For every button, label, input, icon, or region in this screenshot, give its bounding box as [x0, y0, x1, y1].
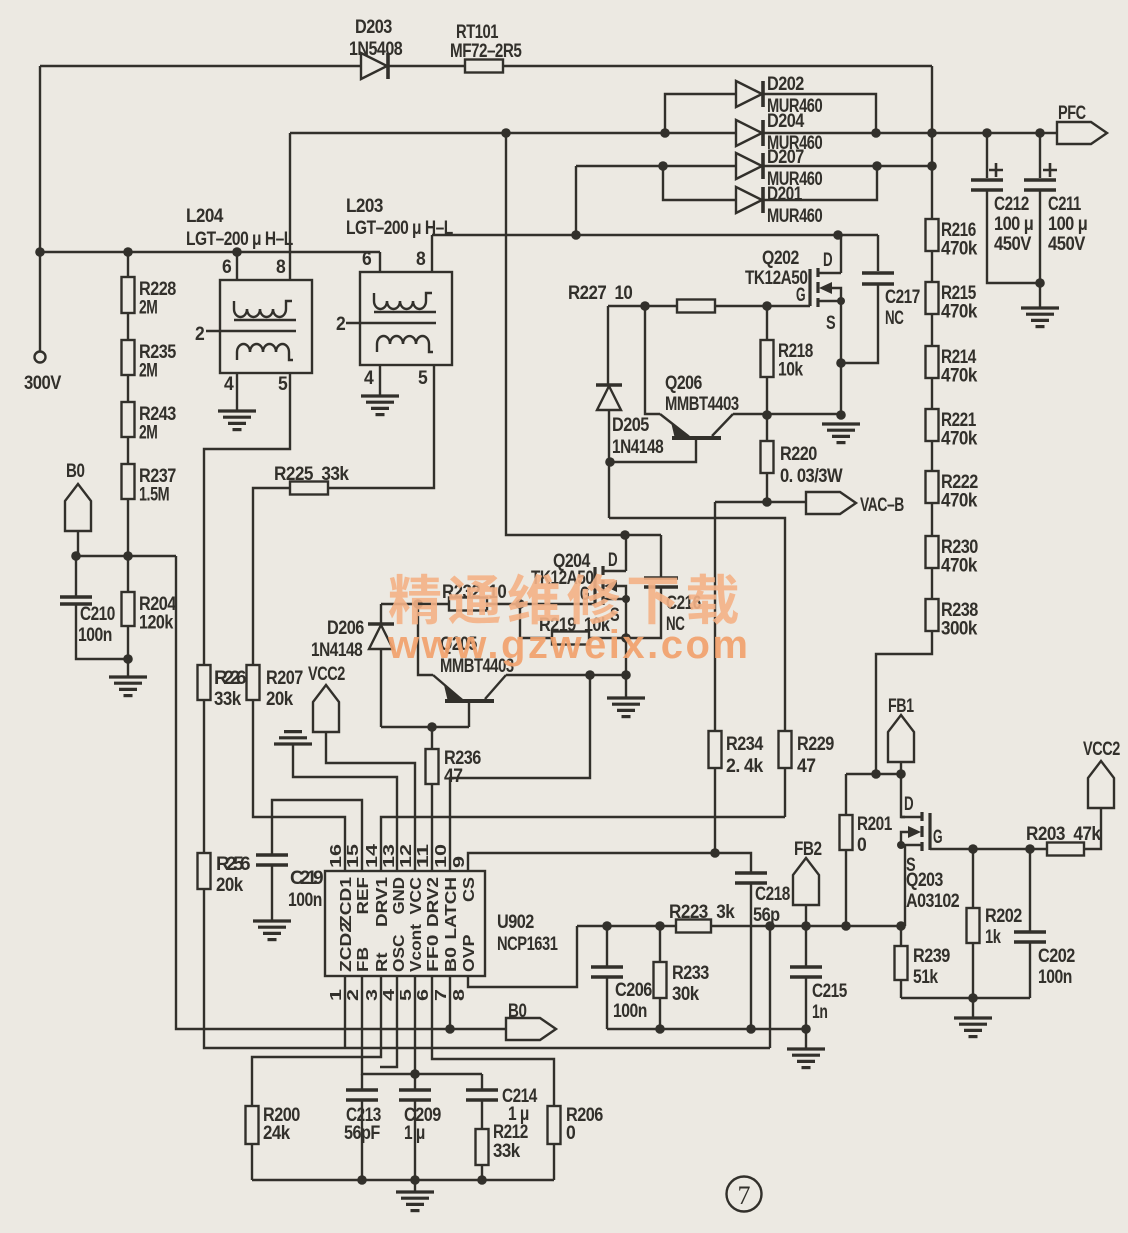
R239 value label [913, 946, 950, 988]
svg-text:300k: 300k [941, 619, 978, 640]
ground under Q202 source [822, 424, 860, 443]
svg-text:Q206: Q206 [665, 373, 702, 394]
wire FB1 stem [900, 762, 902, 774]
net label VCC2 [313, 685, 339, 732]
svg-text:10: 10 [433, 844, 450, 868]
svg-text:0: 0 [566, 1123, 575, 1144]
thermistor RT101 labels [450, 22, 522, 62]
wire Q203 gate line [930, 848, 1047, 850]
net label B0 [65, 484, 91, 531]
svg-text:12: 12 [398, 844, 415, 868]
wire C210 bottom lead [76, 605, 128, 659]
junction R236 bottom rail tap [585, 670, 595, 680]
thermistor RT101 [465, 60, 503, 73]
junction ground riser node [765, 921, 775, 931]
svg-text:R234: R234 [726, 734, 764, 755]
svg-text:14: 14 [364, 844, 381, 868]
C217 value label [885, 287, 920, 329]
diode D204 labels [767, 111, 822, 154]
Q203 name label [906, 870, 959, 912]
resistor R201 [840, 815, 853, 850]
svg-text:www.gzweix.com: www.gzweix.com [387, 623, 750, 667]
svg-text:1: 1 [328, 989, 345, 1001]
junction C209 ground [410, 1175, 420, 1185]
wire Q205 base line [381, 726, 469, 728]
junction R204 C210 ground node [123, 654, 133, 664]
R233 value label [672, 963, 709, 1005]
wire Q202 source lead down [840, 301, 842, 415]
net label FB2 [793, 858, 819, 905]
R220 value label [780, 444, 843, 487]
resistor R238 [926, 599, 939, 631]
wire R226 to R256 [203, 700, 205, 853]
wire mid ground stem [805, 1029, 807, 1048]
wire bottom ground stem [414, 1180, 416, 1192]
wire PFC bus [290, 132, 1057, 134]
wire Q205 emitter line [418, 604, 433, 675]
transistor Q206 [660, 414, 733, 439]
wire C202 top lead [1029, 849, 1031, 931]
svg-text:D204: D204 [767, 111, 805, 132]
wire L204 pin5 to R226 column [204, 373, 290, 665]
svg-text:Vcont: Vcont [408, 923, 425, 972]
junction R212 ground [477, 1175, 487, 1185]
svg-text:11: 11 [415, 844, 432, 868]
resistor R243 [122, 402, 135, 437]
wire Q205 collector ground stem [625, 675, 627, 697]
R201 value label [857, 814, 893, 856]
wire FB1 node line [846, 773, 901, 775]
resistor R230 [926, 536, 939, 568]
resistor R219 [552, 632, 589, 645]
wire D207 cathode line [764, 165, 932, 167]
C210 value label [78, 604, 115, 646]
wire Q204 drain riser [625, 535, 627, 571]
resistor R223 [676, 920, 711, 933]
resistor R232 [449, 598, 487, 611]
diode D202 [736, 81, 763, 107]
C212 plus sign [989, 163, 1003, 177]
wire R203 to VCC2 [1084, 808, 1101, 849]
junction C202 gate [1025, 844, 1035, 854]
svg-text:16: 16 [328, 844, 345, 868]
junction C213 ground [357, 1175, 367, 1185]
svg-text:13: 13 [381, 844, 398, 868]
wire C211 top lead [1039, 133, 1041, 178]
svg-text:15: 15 [345, 844, 362, 868]
diode D207 labels [767, 147, 822, 190]
svg-text:470k: 470k [941, 239, 978, 260]
junction R218 bottom [762, 410, 772, 420]
wire B0 node horizontal [76, 555, 176, 557]
svg-text:R202: R202 [985, 906, 1022, 927]
svg-text:R256: R256 [216, 854, 250, 875]
svg-text:VAC–B: VAC–B [860, 495, 904, 516]
svg-text:4: 4 [381, 989, 398, 1001]
diode D202 labels [767, 74, 822, 117]
resistor R204 [122, 592, 135, 626]
ground under C219 [253, 921, 291, 940]
wire Q206 emitter line [645, 306, 660, 414]
svg-text:U902: U902 [497, 912, 534, 933]
net label PFC [1057, 122, 1107, 144]
op-amp U902 body [325, 871, 485, 976]
resistor R216 [926, 219, 939, 251]
D206 labels [311, 618, 364, 661]
resistor R227 [677, 300, 715, 313]
wire D205 to R229 route [609, 518, 785, 731]
resistor R236 [426, 749, 439, 784]
R204 value label [139, 594, 177, 634]
wire C213 top lead [361, 1074, 363, 1089]
resistor R228 [122, 277, 135, 313]
diode D203 labels [349, 17, 402, 60]
resistor R200 [246, 1106, 259, 1144]
wire R218 leads [766, 306, 768, 415]
wire IC pin 9 CS line [468, 853, 751, 872]
wire C214 top lead [481, 1074, 483, 1089]
wire L204 pin6 stub [236, 252, 238, 280]
diode D205 [596, 385, 622, 410]
svg-text:30k: 30k [672, 984, 700, 1005]
svg-text:6: 6 [222, 257, 231, 278]
R235 value label [139, 342, 177, 382]
svg-text:47: 47 [444, 766, 462, 787]
svg-text:NC: NC [885, 308, 904, 329]
ground at IC pin 13 line [274, 732, 312, 744]
ground under C211 [1021, 308, 1059, 327]
svg-text:FB: FB [355, 947, 372, 972]
capacitor C216 [644, 578, 678, 587]
svg-text:VCC2: VCC2 [308, 664, 345, 685]
wire C213 bottom lead [361, 1101, 363, 1180]
C211 value label [1048, 194, 1087, 255]
svg-text:47: 47 [797, 756, 815, 777]
svg-text:C210: C210 [80, 604, 115, 625]
svg-text:20k: 20k [216, 875, 244, 896]
R207 value label [266, 668, 303, 710]
wire R220 leads [766, 415, 768, 502]
wire C202 bottom lead [1029, 943, 1031, 998]
R226 value label [214, 668, 246, 710]
junction C215 mid rail [801, 1024, 811, 1034]
junction R201 node [841, 921, 851, 931]
wire R201 top lead [845, 774, 847, 815]
resistor R218 [761, 340, 774, 377]
svg-text:470k: 470k [941, 302, 978, 323]
wire IC pin 7 to B0 line [449, 976, 451, 1029]
svg-text:LGT–200 μ H–L: LGT–200 μ H–L [186, 229, 294, 250]
capacitor C212 [971, 180, 1003, 190]
wire C209 bottom lead [414, 1101, 416, 1180]
wire Q205 collector line [506, 674, 626, 676]
resistor R220 [761, 441, 774, 473]
svg-text:C219: C219 [290, 868, 323, 889]
wire IC pin 8 OVP line [468, 926, 577, 987]
svg-text:470k: 470k [941, 556, 978, 577]
svg-text:D202: D202 [767, 74, 804, 95]
svg-text:DRV1: DRV1 [374, 877, 391, 927]
wire top-right drop to PFC bus [931, 66, 933, 133]
wire R212 bottom [481, 1165, 483, 1180]
wire FB2 stem [805, 905, 807, 926]
svg-text:R229: R229 [797, 734, 834, 755]
svg-text:470k: 470k [941, 491, 978, 512]
inductor L204 [206, 280, 312, 373]
svg-text:R212: R212 [493, 1122, 528, 1143]
R206 value label [566, 1105, 603, 1144]
wire R229 bottom to DRV1 line [784, 768, 786, 817]
resistor R233 [654, 962, 667, 998]
wire R204 leads [127, 556, 129, 676]
svg-text:FB2: FB2 [794, 839, 822, 860]
resistor R222 [926, 471, 939, 503]
junction C212 C211 bottom [1035, 278, 1045, 288]
svg-text:1N4148: 1N4148 [612, 437, 663, 458]
wire bottom ground rail [252, 1179, 554, 1181]
resistor R234 [709, 731, 722, 768]
wire L203 pin8 riser [431, 235, 433, 272]
wire Q204 source lead down [625, 599, 627, 638]
junction R237 bottom B0 node [123, 551, 133, 561]
wire B0 node down-right route [176, 556, 506, 1029]
junction PFC bus C211 [1035, 128, 1045, 138]
capacitor C206 [591, 967, 623, 977]
C209 value label [404, 1105, 441, 1144]
svg-text:D206: D206 [327, 618, 364, 639]
wire R225 left to R207 column [253, 488, 290, 665]
svg-text:1k: 1k [985, 927, 1001, 948]
svg-text:REF: REF [355, 877, 372, 915]
svg-text:2: 2 [345, 989, 362, 1001]
junction L204 pin6 node [232, 247, 242, 257]
wire ground to IC pin 13 [293, 745, 397, 871]
C214 value label [502, 1086, 538, 1125]
svg-text:100n: 100n [1038, 967, 1072, 988]
resistor R235 [122, 340, 135, 375]
resistor R225 [290, 482, 328, 495]
wire R201 bottom lead [845, 850, 847, 926]
inductor L203 [346, 272, 452, 365]
svg-text:B0: B0 [66, 461, 84, 482]
wire IC pin 6 to R206 [432, 976, 554, 1106]
capacitor C202 [1014, 932, 1046, 942]
svg-text:120k: 120k [139, 613, 174, 634]
R230 value label [941, 537, 978, 577]
wire Q204 drain line from PFC tap [506, 133, 661, 535]
junction pin5 C209 [410, 1069, 420, 1079]
transistor Q204 [595, 566, 630, 605]
transistor Q205 [433, 675, 506, 702]
ground under L203 pin4 [361, 396, 399, 415]
junction PFC bus C212 [982, 128, 992, 138]
svg-text:L204: L204 [186, 206, 224, 227]
junction R202 gate [968, 844, 978, 854]
junction D201 anode riser [658, 161, 668, 171]
svg-text:CS: CS [461, 877, 478, 902]
wire C212 top lead [986, 133, 988, 178]
resistor R226 [198, 665, 211, 700]
svg-text:D: D [904, 794, 913, 815]
svg-text:R233: R233 [672, 963, 709, 984]
junction R233 mid rail [655, 1024, 665, 1034]
wire VCC2 to IC pin 12 [326, 732, 415, 871]
junction VAC-B node [762, 497, 772, 507]
svg-text:R201: R201 [857, 814, 893, 835]
wire IC pin 5 lead [414, 976, 416, 1074]
wire Q202 drain riser [840, 235, 842, 273]
svg-text:1N4148: 1N4148 [311, 640, 362, 661]
wire switch bus Q202 drain line [432, 234, 878, 236]
junction 300V node [35, 247, 45, 257]
wire D206 anode lead [380, 649, 382, 727]
svg-text:3: 3 [364, 989, 381, 1001]
svg-text:470k: 470k [941, 429, 978, 450]
svg-text:RT101: RT101 [456, 22, 499, 43]
svg-text:2. 4k: 2. 4k [726, 756, 764, 777]
wire C216 bottom lead [626, 588, 661, 638]
junction D201 cathode riser [872, 161, 882, 171]
wire R207 to IC pin 16 [253, 700, 345, 871]
wire R239 leads [900, 926, 902, 998]
wire C215 top lead [805, 926, 807, 966]
wire DRV1 line to IC pin 14 [381, 817, 785, 871]
junction R227 Q206 emitter tap [640, 301, 650, 311]
wire IC pin 2 lead [362, 976, 482, 1074]
L204 pin numbers [195, 257, 288, 395]
ground under Q204 source [607, 698, 645, 717]
svg-text:4: 4 [364, 368, 374, 389]
wire C210 top lead [75, 556, 77, 596]
wire D201 anode branch [663, 166, 737, 200]
junction B0 stem [71, 551, 81, 561]
junction Q202 source C217 [836, 358, 846, 368]
svg-text:2: 2 [336, 314, 345, 335]
svg-text:2M: 2M [139, 298, 157, 319]
wire D205 cathode riser [607, 306, 609, 384]
wire mid ground rail [607, 1028, 806, 1030]
wire L203 pin5 to R225 [328, 365, 434, 488]
svg-text:450V: 450V [1048, 234, 1086, 255]
diode D207 [736, 153, 763, 179]
R238 value label [941, 600, 978, 640]
svg-text:G: G [933, 827, 942, 848]
wire IC pin 3 to R200 [252, 976, 381, 1106]
C212 value label [994, 194, 1033, 255]
wire D202 anode branch [665, 94, 737, 133]
svg-text:2M: 2M [139, 361, 157, 382]
svg-text:100 μ: 100 μ [994, 214, 1033, 235]
junction R232 left Q205 emitter tap [413, 599, 423, 609]
C218 value label [753, 884, 790, 926]
L203 pin numbers [336, 249, 428, 389]
wire Q205 collector to IC pin 10 [450, 675, 590, 871]
C216 value label [666, 593, 701, 635]
capacitor C211 [1024, 180, 1056, 190]
diode D204 [736, 120, 763, 146]
R243 value label [139, 404, 176, 444]
svg-text:ZCD1: ZCD1 [338, 877, 355, 927]
svg-text:D205: D205 [612, 415, 650, 436]
watermark chinese text [389, 573, 738, 624]
wire D205 anode lead [608, 410, 610, 518]
junction R234 CS line [710, 848, 720, 858]
junction Q204 drain [620, 530, 630, 540]
svg-text:100n: 100n [78, 625, 112, 646]
R236 value label [444, 748, 481, 787]
wire Q205 base lead [468, 701, 470, 727]
svg-text:C215: C215 [812, 981, 848, 1002]
svg-text:LATCH: LATCH [443, 877, 460, 940]
svg-text:C212: C212 [994, 194, 1029, 215]
svg-text:MUR460: MUR460 [767, 206, 822, 227]
wire R219 left riser [520, 604, 552, 638]
junction chain top [927, 161, 937, 171]
svg-text:7: 7 [738, 1181, 751, 1210]
wire R206 bottom [553, 1144, 555, 1180]
svg-text:R226: R226 [214, 668, 246, 689]
wire chain bottom jog to FB1 [876, 632, 932, 774]
svg-text:6: 6 [415, 989, 432, 1001]
wire 300V node to L203 pin 6 [40, 251, 380, 253]
svg-text:R207: R207 [266, 668, 303, 689]
resistor R207 [247, 665, 260, 700]
ground bottom rail [396, 1192, 434, 1211]
resistor R203 [1047, 843, 1084, 856]
svg-text:D: D [823, 250, 832, 271]
capacitor C215 [790, 967, 822, 977]
net label B0 [506, 1018, 556, 1040]
resistor R214 [926, 346, 939, 378]
wire R233 top lead [659, 926, 661, 962]
svg-text:D203: D203 [355, 17, 392, 38]
net label FB1 [888, 715, 914, 762]
wire C211 bottom lead [1039, 191, 1041, 307]
svg-text:C211: C211 [1048, 194, 1082, 215]
wire R202 leads [972, 849, 974, 998]
wire top bus from 300V node to right corner [40, 65, 932, 67]
R234 value label [726, 734, 764, 777]
resistor R206 [548, 1106, 561, 1144]
svg-text:C206: C206 [615, 980, 652, 1001]
junction Q202 source ground node [836, 410, 846, 420]
svg-text:B0: B0 [443, 947, 460, 972]
svg-text:OVP: OVP [461, 934, 478, 972]
resistor R256 [198, 853, 211, 889]
ground under R204 [109, 677, 147, 696]
L204 name label [186, 206, 294, 250]
R212 value label [493, 1122, 528, 1162]
svg-text:33k: 33k [214, 689, 242, 710]
junction R232 right R219 tap [515, 599, 525, 609]
resistor R237 [122, 464, 135, 499]
net label VCC2 [1088, 761, 1114, 808]
svg-text:6: 6 [362, 249, 371, 270]
wire D206 cathode riser [380, 604, 382, 623]
svg-text:33k: 33k [493, 1141, 521, 1162]
wire R234 riser [714, 502, 716, 731]
capacitor C214 [466, 1090, 498, 1100]
diode D201 labels [767, 184, 822, 227]
svg-text:4: 4 [224, 374, 234, 395]
R214 value label [941, 347, 978, 387]
svg-text:R239: R239 [913, 946, 950, 967]
svg-text:5: 5 [418, 368, 428, 389]
wire R236 top lead [431, 727, 433, 749]
junction FB1 Q203 drain [896, 769, 906, 779]
junction R236 top [427, 722, 437, 732]
capacitor C219 [256, 855, 288, 865]
